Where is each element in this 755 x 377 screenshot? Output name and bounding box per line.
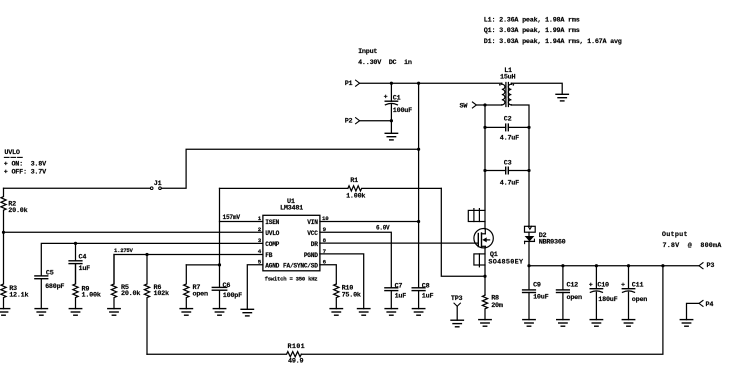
svg-text:VCC: VCC bbox=[307, 230, 318, 237]
svg-text:1.00k: 1.00k bbox=[346, 193, 365, 201]
node UVLO junction bbox=[2, 231, 5, 234]
ground C8 bbox=[412, 309, 424, 316]
wire J1 to VIN vertical bbox=[161, 149, 418, 188]
svg-text:C10: C10 bbox=[597, 282, 609, 290]
node ISEN source junction bbox=[483, 275, 486, 278]
svg-text:4..30V DC in: 4..30V DC in bbox=[358, 59, 412, 67]
ground R3 bbox=[0, 309, 10, 316]
svg-text:UVLO: UVLO bbox=[4, 149, 19, 157]
svg-text:open: open bbox=[193, 291, 208, 299]
svg-text:R101: R101 bbox=[288, 343, 306, 351]
node C1 top junction bbox=[390, 82, 393, 85]
svg-text:1uF: 1uF bbox=[422, 293, 434, 301]
ground C6 bbox=[213, 309, 225, 316]
pin 1 ISEN bbox=[220, 215, 280, 226]
resistor R7 bbox=[184, 265, 208, 309]
svg-text:7.8V @ 800mA: 7.8V @ 800mA bbox=[663, 242, 723, 250]
ground AGND bbox=[241, 309, 253, 316]
label FB voltage bbox=[114, 247, 134, 254]
svg-text:4.7uF: 4.7uF bbox=[500, 180, 519, 188]
svg-text:C1: C1 bbox=[393, 95, 401, 103]
wire SW vertical bbox=[484, 105, 486, 210]
svg-text:C5: C5 bbox=[46, 270, 54, 278]
ground C11 bbox=[622, 320, 634, 327]
diode D2 bbox=[525, 232, 566, 266]
svg-text:15uH: 15uH bbox=[500, 74, 515, 82]
note UVLO title bbox=[4, 149, 22, 157]
node VIN vertical junction bbox=[417, 82, 420, 85]
ground L1 bbox=[556, 94, 568, 101]
pin 10 VIN bbox=[307, 215, 418, 226]
wire R2 top rail bbox=[4, 187, 151, 189]
svg-text:open: open bbox=[632, 296, 647, 304]
pin 6 FA/SYNC/SD bbox=[283, 259, 336, 284]
capacitor C2 bbox=[485, 116, 529, 143]
svg-text:1.00k: 1.00k bbox=[82, 292, 101, 300]
capacitor C12 bbox=[557, 266, 582, 320]
ground R9 bbox=[69, 309, 81, 316]
node C2 left bbox=[483, 126, 486, 129]
svg-text:+ ON: 3.8V: + ON: 3.8V bbox=[4, 160, 47, 168]
svg-text:COMP: COMP bbox=[265, 241, 279, 248]
connector P2 bbox=[345, 117, 360, 125]
svg-text:FA/SYNC/SD: FA/SYNC/SD bbox=[283, 263, 318, 270]
pin 5 AGND wire bbox=[247, 265, 263, 310]
svg-text:P1: P1 bbox=[345, 80, 353, 88]
svg-text:4.7uF: 4.7uF bbox=[500, 134, 519, 142]
svg-text:C6: C6 bbox=[223, 282, 231, 290]
svg-text:C11: C11 bbox=[632, 282, 644, 290]
label SW bbox=[460, 102, 477, 111]
wire P2 bbox=[360, 120, 392, 122]
op-amp U1 LM3481 box bbox=[263, 198, 320, 271]
resistor R2 bbox=[1, 188, 28, 232]
svg-text:12.1k: 12.1k bbox=[9, 292, 28, 300]
svg-text:TP3: TP3 bbox=[451, 295, 463, 303]
svg-text:100pF: 100pF bbox=[223, 292, 242, 300]
test point TP3 bbox=[451, 295, 463, 320]
svg-text:PGND: PGND bbox=[304, 252, 318, 259]
ground C5 bbox=[35, 309, 47, 316]
ground R5 bbox=[108, 309, 120, 316]
pin 3 COMP bbox=[258, 237, 280, 248]
wire input rail bbox=[360, 82, 502, 84]
pin 4 FB bbox=[258, 248, 273, 259]
node C3 right bbox=[527, 169, 530, 172]
resistor R8 bbox=[482, 295, 502, 320]
svg-text:75.0k: 75.0k bbox=[342, 292, 361, 300]
resistor R3 bbox=[1, 232, 29, 308]
wire VIN vertical bbox=[418, 83, 420, 221]
svg-text:C2: C2 bbox=[504, 116, 512, 124]
node P2 junction bbox=[390, 119, 393, 122]
ground PGND bbox=[358, 309, 370, 316]
svg-text:+: + bbox=[384, 94, 388, 102]
connector P1 bbox=[345, 80, 360, 88]
wire R7 to ISEN bbox=[186, 264, 219, 266]
resistor R10 bbox=[334, 284, 361, 309]
svg-text:open: open bbox=[567, 294, 582, 302]
svg-text:ISEN: ISEN bbox=[265, 219, 279, 226]
svg-text:P4: P4 bbox=[706, 301, 714, 309]
node output C11 bbox=[627, 264, 630, 267]
transistor Q1 drain pins box bbox=[468, 209, 485, 222]
node output C12 bbox=[561, 264, 564, 267]
pin 7 PGND bbox=[304, 248, 364, 309]
svg-text:6.0V: 6.0V bbox=[376, 224, 390, 231]
node C2 right bbox=[527, 126, 530, 129]
label Output bbox=[662, 231, 688, 239]
connector P3 bbox=[699, 262, 714, 270]
note L1 current bbox=[484, 17, 580, 25]
wire UVLO rail bbox=[4, 231, 263, 233]
svg-text:20.0k: 20.0k bbox=[121, 290, 140, 298]
wire output rail bbox=[529, 265, 699, 267]
note D1 current bbox=[484, 38, 622, 46]
svg-text:100uF: 100uF bbox=[393, 107, 412, 115]
inductor L1 winding A bbox=[499, 67, 515, 105]
svg-text:180uF: 180uF bbox=[598, 296, 617, 304]
ground C9 bbox=[523, 320, 535, 327]
wire L1B top to ground bbox=[511, 83, 562, 94]
svg-text:AGND: AGND bbox=[265, 263, 279, 270]
node COMP junction C4 bbox=[74, 242, 77, 245]
node FB junction R6 bbox=[145, 253, 148, 256]
pin 5 AGND bbox=[258, 259, 280, 270]
svg-text:4: 4 bbox=[258, 248, 262, 255]
svg-text:20.0k: 20.0k bbox=[8, 207, 27, 215]
ground C10 bbox=[590, 320, 602, 327]
note Q1 current bbox=[484, 27, 580, 35]
capacitor C7 bbox=[385, 283, 406, 309]
node J1 wire junction bbox=[417, 148, 420, 151]
svg-text:+: + bbox=[621, 282, 625, 290]
wire COMP rail bbox=[41, 243, 263, 276]
label input range bbox=[358, 59, 412, 67]
resistor R9 bbox=[73, 264, 101, 309]
svg-text:FB: FB bbox=[265, 252, 272, 259]
svg-text:fswitch = 350 kHz: fswitch = 350 kHz bbox=[265, 275, 318, 282]
pin 8 DR bbox=[311, 237, 478, 248]
resistor R5 bbox=[111, 255, 140, 309]
note UVLO on bbox=[4, 160, 47, 168]
inductor L1 core bbox=[506, 83, 509, 107]
label Input bbox=[358, 48, 377, 56]
svg-text:Input: Input bbox=[358, 48, 377, 56]
node R7 ISEN junction bbox=[218, 263, 221, 266]
capacitor C1 bbox=[384, 83, 413, 133]
svg-text:DR: DR bbox=[311, 241, 318, 248]
svg-text:LM3481: LM3481 bbox=[280, 205, 303, 213]
label ISEN voltage bbox=[223, 214, 241, 221]
node output D2 bbox=[527, 264, 530, 267]
svg-text:C4: C4 bbox=[79, 254, 87, 262]
resistor R101 bbox=[147, 343, 305, 366]
jumper J1 bbox=[150, 180, 161, 190]
svg-text:1.275V: 1.275V bbox=[114, 247, 134, 254]
wire ISEN sense right bbox=[441, 188, 485, 276]
svg-text:VIN: VIN bbox=[307, 219, 318, 226]
svg-text:SW: SW bbox=[460, 103, 469, 111]
svg-text:49.9: 49.9 bbox=[288, 358, 303, 366]
ground C7 bbox=[385, 309, 397, 316]
svg-text:20m: 20m bbox=[491, 302, 503, 310]
svg-text:1uF: 1uF bbox=[395, 293, 407, 301]
node SW junction bbox=[483, 103, 486, 106]
svg-text:P3: P3 bbox=[707, 262, 715, 270]
wire feedback down bbox=[301, 266, 663, 355]
svg-text:680pF: 680pF bbox=[45, 283, 64, 291]
svg-text:UVLO: UVLO bbox=[265, 230, 279, 237]
svg-text:+ OFF: 3.7V: + OFF: 3.7V bbox=[4, 168, 47, 176]
svg-text:C7: C7 bbox=[395, 283, 403, 291]
resistor R6 bbox=[144, 255, 169, 355]
capacitor C10 bbox=[589, 266, 618, 320]
node output C10 bbox=[595, 264, 598, 267]
capacitor C11 bbox=[621, 266, 647, 320]
svg-text:P2: P2 bbox=[345, 117, 353, 125]
svg-text:NBR0360: NBR0360 bbox=[539, 239, 566, 247]
svg-text:C8: C8 bbox=[422, 283, 430, 291]
svg-text:D1: 3.03A peak, 1.94A rms, 1.6: D1: 3.03A peak, 1.94A rms, 1.67A avg bbox=[484, 38, 622, 46]
wire P4 bbox=[687, 303, 700, 319]
svg-text:SO4850EY: SO4850EY bbox=[488, 258, 524, 266]
ground R8 bbox=[479, 320, 491, 327]
wire FB rail bbox=[114, 255, 263, 285]
capacitor C4 bbox=[69, 243, 90, 284]
ground C1 bbox=[385, 133, 397, 140]
svg-text:10uF: 10uF bbox=[533, 294, 548, 302]
svg-text:10: 10 bbox=[322, 215, 329, 222]
capacitor C8 bbox=[412, 222, 433, 309]
label output spec bbox=[663, 242, 723, 250]
svg-text:C9: C9 bbox=[533, 281, 541, 289]
node VIN pin junction bbox=[417, 220, 420, 223]
node output feedback bbox=[661, 264, 664, 267]
transistor Q1 source pins box bbox=[474, 248, 485, 267]
svg-text:C12: C12 bbox=[567, 281, 579, 289]
svg-text:R1: R1 bbox=[350, 177, 358, 185]
note UVLO off bbox=[4, 168, 47, 176]
ground R7 bbox=[180, 309, 192, 316]
capacitor C9 bbox=[523, 266, 549, 320]
svg-text:Q1: 3.03A peak, 1.99A rms: Q1: 3.03A peak, 1.99A rms bbox=[484, 27, 580, 35]
capacitor C6 bbox=[212, 282, 242, 309]
svg-text:1uF: 1uF bbox=[79, 265, 91, 273]
capacitor C5 bbox=[35, 270, 65, 309]
svg-text:C3: C3 bbox=[504, 160, 512, 168]
transistor Q1 bbox=[474, 222, 524, 267]
wire ISEN vertical bbox=[219, 188, 221, 287]
ground R10 bbox=[330, 309, 342, 316]
svg-text:102k: 102k bbox=[154, 290, 169, 298]
svg-text:157mV: 157mV bbox=[223, 214, 241, 221]
svg-text:+: + bbox=[589, 282, 593, 290]
pin 2 UVLO bbox=[258, 226, 280, 237]
note switching frequency bbox=[265, 275, 318, 282]
resistor R1 bbox=[346, 177, 441, 201]
node C3 left bbox=[483, 169, 486, 172]
capacitor C3 bbox=[485, 160, 529, 188]
diode D2 package box bbox=[525, 226, 536, 232]
pin 9 VCC bbox=[307, 224, 391, 287]
svg-text:Output: Output bbox=[662, 231, 688, 239]
ground C12 bbox=[557, 320, 569, 327]
ground P4 bbox=[680, 320, 692, 327]
inductor L1 winding B bbox=[508, 83, 514, 105]
ground TP3 bbox=[451, 320, 463, 327]
wire SW node bbox=[476, 104, 501, 106]
svg-text:L1: 2.36A peak, 1.98A rms: L1: 2.36A peak, 1.98A rms bbox=[484, 17, 580, 25]
wire ISEN sense bbox=[220, 187, 348, 189]
connector P4 bbox=[699, 300, 713, 308]
wire Q1 source bbox=[484, 265, 486, 295]
wire L1B bottom bbox=[511, 105, 529, 226]
